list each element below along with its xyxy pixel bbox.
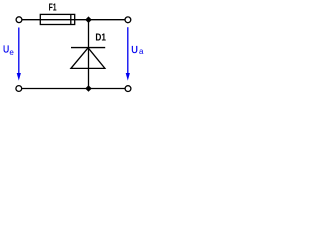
terminal top-left [16,17,22,23]
svg-text:F1: F1 [49,3,57,14]
wire diode branch [88,20,90,89]
svg-text:U: U [3,45,9,56]
terminal bottom-left [16,86,22,92]
wire bottom rail [22,88,125,90]
fuse F1 [40,14,74,24]
junction dot bottom [85,85,92,92]
svg-text:a: a [139,47,144,56]
wire top rail [22,19,125,21]
terminal top-right [125,17,131,23]
terminal bottom-right [125,86,131,92]
svg-text:D1: D1 [95,33,106,44]
junction dot top [85,16,92,23]
arrow Ue [17,28,21,81]
arrow Ua [126,27,130,80]
svg-text:e: e [9,48,14,57]
diode D1 [71,48,105,69]
svg-text:U: U [131,45,138,56]
